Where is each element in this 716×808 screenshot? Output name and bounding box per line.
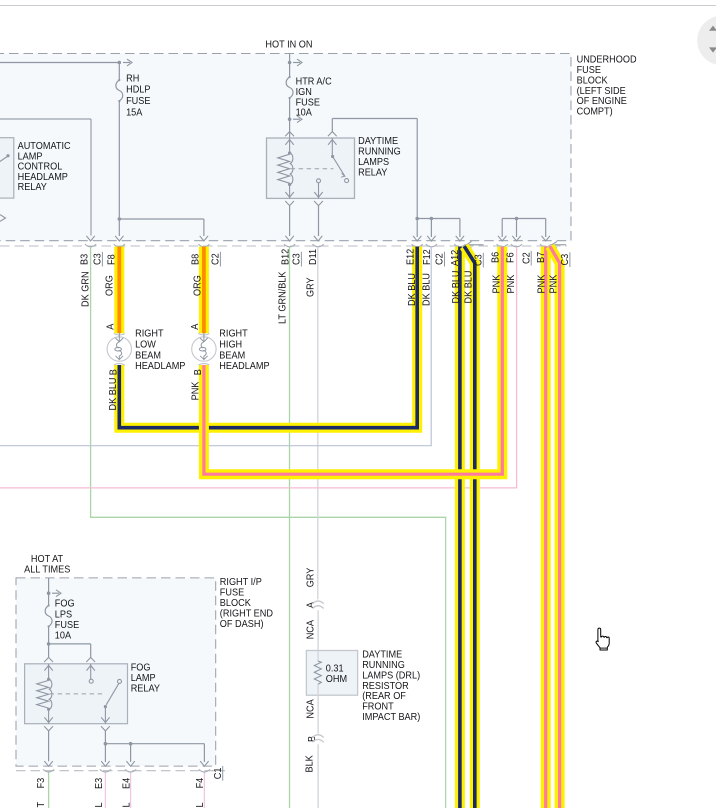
svg-text:DK BLU: DK BLU	[463, 270, 474, 303]
svg-text:BEAM: BEAM	[135, 350, 161, 361]
svg-text:ALL TIMES: ALL TIMES	[24, 564, 70, 575]
svg-text:HIGH: HIGH	[219, 339, 242, 350]
svg-text:A: A	[190, 323, 201, 330]
svg-text:DK BLU: DK BLU	[421, 273, 432, 306]
svg-text:10A: 10A	[55, 630, 72, 641]
svg-text:A12: A12	[450, 250, 461, 266]
svg-text:E12: E12	[405, 249, 416, 265]
svg-text:DK BLU: DK BLU	[451, 270, 462, 303]
svg-text:RELAY: RELAY	[131, 683, 161, 694]
svg-text:RH: RH	[126, 73, 139, 84]
svg-text:LOW: LOW	[135, 339, 156, 350]
svg-text:B12: B12	[280, 249, 291, 265]
svg-text:NCA: NCA	[305, 699, 316, 719]
svg-text:F3: F3	[36, 778, 47, 789]
svg-text:COMPT): COMPT)	[577, 106, 613, 117]
svg-text:ORG: ORG	[104, 275, 115, 296]
svg-text:E3: E3	[94, 778, 105, 789]
svg-text:F12: F12	[422, 249, 433, 265]
svg-text:T: T	[36, 802, 47, 808]
svg-text:RIGHT: RIGHT	[219, 328, 248, 339]
svg-text:A: A	[105, 323, 116, 330]
svg-text:GRY: GRY	[305, 277, 316, 297]
svg-text:E4: E4	[121, 777, 132, 789]
svg-text:D11: D11	[308, 249, 319, 265]
svg-text:HEADLAMP: HEADLAMP	[219, 361, 269, 372]
svg-text:HEADLAMP: HEADLAMP	[135, 361, 185, 372]
svg-text:DK GRN: DK GRN	[80, 271, 91, 307]
svg-text:PNK: PNK	[190, 381, 201, 400]
svg-text:GRY: GRY	[305, 567, 316, 587]
svg-text:NCA: NCA	[305, 619, 316, 639]
svg-text:B: B	[193, 369, 204, 375]
svg-text:F6: F6	[505, 252, 516, 263]
svg-text:IMPACT BAR): IMPACT BAR)	[362, 712, 420, 723]
svg-text:RIGHT: RIGHT	[135, 328, 164, 339]
svg-text:L: L	[195, 802, 206, 808]
svg-text:OF DASH): OF DASH)	[220, 619, 264, 630]
svg-text:F4: F4	[195, 777, 206, 788]
svg-text:BLK: BLK	[304, 755, 315, 773]
svg-text:L: L	[121, 802, 132, 808]
svg-text:RELAY: RELAY	[358, 167, 388, 178]
svg-text:15A: 15A	[126, 107, 143, 118]
svg-text:PNK: PNK	[491, 274, 502, 293]
svg-text:L: L	[94, 802, 105, 808]
svg-text:PNK: PNK	[536, 274, 547, 293]
svg-text:B7: B7	[536, 252, 547, 263]
svg-text:B6: B6	[490, 252, 501, 263]
svg-text:ORG: ORG	[192, 275, 203, 296]
svg-text:F8: F8	[106, 254, 117, 265]
svg-text:FUSE: FUSE	[126, 96, 150, 107]
svg-text:B8: B8	[190, 254, 201, 265]
svg-text:DK BLU: DK BLU	[108, 377, 119, 410]
svg-text:B: B	[108, 369, 119, 375]
svg-text:PNK: PNK	[506, 274, 517, 293]
svg-text:HOT IN ON: HOT IN ON	[265, 39, 312, 50]
svg-text:LT GRN/BLK: LT GRN/BLK	[277, 271, 288, 324]
svg-text:B3: B3	[79, 254, 90, 265]
svg-text:PNK: PNK	[548, 274, 559, 293]
svg-text:HDLP: HDLP	[126, 84, 150, 95]
svg-text:BEAM: BEAM	[219, 350, 245, 361]
svg-text:OHM: OHM	[326, 674, 347, 685]
svg-text:RELAY: RELAY	[18, 182, 48, 193]
svg-text:DK BLU: DK BLU	[407, 273, 418, 306]
